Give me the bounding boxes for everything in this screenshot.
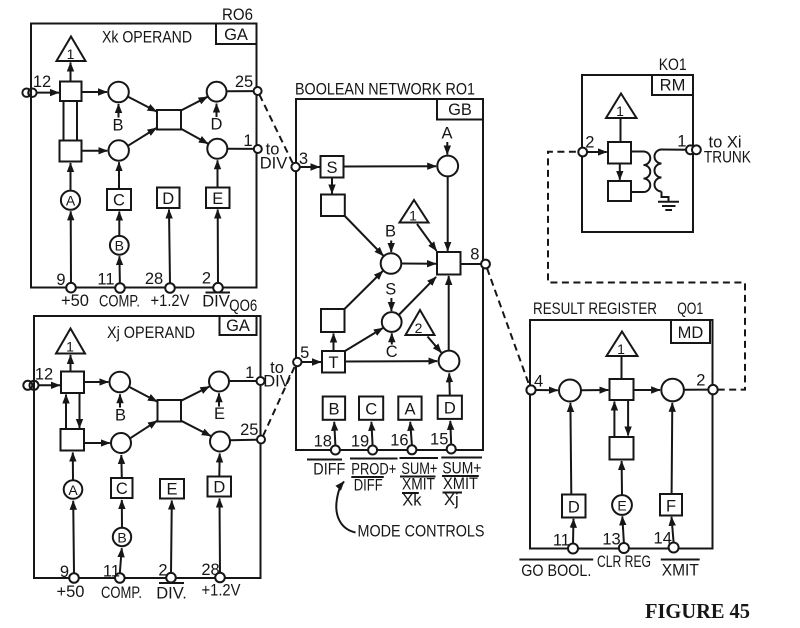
wire square 8 to node 8 <box>461 263 482 265</box>
wire center square to circle E (Xj) <box>181 387 209 401</box>
wire node 11 to circle B (Xk) <box>118 256 121 283</box>
amplifier triangle 1 (KO1) <box>606 94 637 119</box>
pin node 18 <box>331 446 340 455</box>
dashed wire result register node2 to KO1 node2 <box>548 152 745 390</box>
control square D (RR) <box>562 495 586 518</box>
node 3 input <box>291 163 299 171</box>
svg-text:D: D <box>213 479 225 497</box>
wire E to lower-right circle (Xk) <box>217 160 219 187</box>
svg-text:1: 1 <box>617 341 625 357</box>
svg-text:MD: MD <box>678 324 704 342</box>
svg-text:B: B <box>112 117 123 135</box>
svg-text:2: 2 <box>585 134 594 152</box>
center mixing square (Xk) <box>157 110 181 130</box>
wire lower-right circle to square 8 <box>448 276 450 351</box>
gate circle C (middle) <box>382 312 402 332</box>
amplifier triangle 1 (Xk) <box>57 37 86 62</box>
svg-text:3: 3 <box>299 150 308 168</box>
wire input to rank1 (Xj) <box>39 384 60 386</box>
wire circle D to node 25 (Xk) <box>227 90 254 92</box>
svg-text:2: 2 <box>202 270 211 288</box>
svg-text:25: 25 <box>240 421 258 439</box>
wire A to rank2 (Xj) <box>72 453 74 481</box>
wire square F to right circle (RR) <box>671 403 674 494</box>
wire circle C to square 8 <box>399 277 436 315</box>
svg-text:9: 9 <box>56 271 65 289</box>
svg-text:E: E <box>214 405 225 423</box>
wire S down to square <box>331 178 333 194</box>
node 4 input (RR) <box>526 385 535 394</box>
wire lower-right circle to node 1 (Xk) <box>227 148 254 150</box>
svg-text:1: 1 <box>677 133 686 151</box>
transformer left coil <box>644 152 651 193</box>
wire node 13 to circle E (RR) <box>622 516 624 543</box>
register square bottom (RR) <box>610 437 634 460</box>
wire T to lower-right circle <box>345 360 437 362</box>
wire node 15 to square D <box>449 421 452 445</box>
svg-text:GB: GB <box>448 101 472 119</box>
svg-text:KO1: KO1 <box>659 56 687 74</box>
gate circle bottom-left (Xk) <box>109 140 129 160</box>
wire A to rank2 (Xk) <box>70 163 72 191</box>
wire triangle 1 to square 8 <box>417 224 437 251</box>
control square D (boolean) <box>438 396 462 419</box>
svg-text:4: 4 <box>534 373 543 391</box>
gate circle top-left (Xj) <box>110 372 131 393</box>
wire D to lower-right circle (Xj) <box>218 454 220 477</box>
pin node 2 (Xk) <box>213 283 223 293</box>
wire lower-right circle to node 25 (Xj) <box>230 439 257 442</box>
svg-text:1: 1 <box>67 46 75 62</box>
wire triangle 2 to lower-right circle <box>428 337 442 353</box>
node 1 to DIV (Xj) <box>257 377 265 385</box>
wire square-above-T to circle B <box>345 271 383 309</box>
control square D (Xj) <box>208 477 232 497</box>
svg-text:C: C <box>365 401 377 419</box>
center mixing square (Xj) <box>158 400 182 422</box>
svg-text:COMP.: COMP. <box>99 293 140 311</box>
wire rank2 to lower-left circle (Xj) <box>84 442 110 444</box>
wire rank2 to lower-left circle (Xk) <box>82 150 108 152</box>
gate circle left (RR) <box>559 380 581 402</box>
svg-text:11: 11 <box>97 271 114 289</box>
svg-text:D: D <box>211 116 223 134</box>
svg-text:DIV: DIV <box>260 155 288 173</box>
gate circle bottom-right (Xk) <box>207 139 227 159</box>
wire square 1 to square 2 (KO1) <box>619 164 621 180</box>
gate circle top-right E (Xj) <box>209 372 229 392</box>
wire square to triangle (Xk) <box>70 63 72 82</box>
svg-text:RO6: RO6 <box>222 6 253 24</box>
svg-text:Xk OPERAND: Xk OPERAND <box>102 29 192 47</box>
svg-text:9: 9 <box>60 563 69 581</box>
gate circle top-left (Xk) <box>108 82 129 103</box>
ground symbol <box>658 201 679 203</box>
control square E (Xj) <box>160 479 184 499</box>
svg-text:GO BOOL.: GO BOOL. <box>521 562 591 580</box>
svg-text:B: B <box>328 401 339 419</box>
register square rank2 (Xk) <box>60 141 82 162</box>
svg-text:A: A <box>66 193 76 209</box>
trunk input double circle (Xk pin 12) <box>22 89 30 97</box>
svg-text:FIGURE 45: FIGURE 45 <box>645 599 750 623</box>
svg-text:A: A <box>68 482 78 498</box>
wire square1 to left coil <box>631 151 644 153</box>
node 1 to DIV (Xk) <box>254 145 262 153</box>
coupling wire left (Xj) <box>65 395 67 430</box>
wire right coil to output node 1 <box>662 149 687 151</box>
svg-text:QO1: QO1 <box>677 300 703 318</box>
svg-text:S: S <box>326 159 337 177</box>
wire circle B to square C (Xj) <box>121 500 123 528</box>
svg-text:1: 1 <box>616 103 624 119</box>
wire lower-left circle to center square (Xj) <box>130 421 157 438</box>
svg-text:D: D <box>162 190 174 208</box>
svg-text:28: 28 <box>145 270 163 288</box>
coupling wire left (RR) <box>613 402 615 437</box>
svg-text:RM: RM <box>660 77 686 95</box>
svg-text:COMP.: COMP. <box>101 584 142 602</box>
svg-text:MODE CONTROLS: MODE CONTROLS <box>358 523 485 541</box>
wire node 2 to square E (Xk) <box>217 210 219 284</box>
wire right coil to ground <box>662 192 669 202</box>
control square C (Xj) <box>111 478 133 498</box>
inverter triangle 1 (boolean) <box>400 200 429 223</box>
gate square T <box>322 351 345 373</box>
svg-text:11: 11 <box>553 532 570 550</box>
svg-text:XMIT: XMIT <box>662 562 699 580</box>
coupling wire left (Xk) <box>63 101 65 141</box>
pin node 16 <box>407 445 416 454</box>
svg-text:DIV.: DIV. <box>156 585 187 603</box>
svg-text:14: 14 <box>654 530 672 548</box>
svg-text:CLR REG: CLR REG <box>597 553 651 571</box>
control square F (RR) <box>660 494 682 516</box>
wire square D to left circle (RR) <box>569 403 572 495</box>
inverter triangle 2 (boolean) <box>406 310 435 335</box>
wire circle B to square C (Xk) <box>118 212 120 236</box>
wire square2 to left coil <box>631 191 644 193</box>
svg-text:15: 15 <box>430 431 448 449</box>
pin node 28 (Xk) <box>165 283 175 293</box>
pin node 11 (RR) <box>568 544 578 554</box>
svg-text:Xk: Xk <box>402 492 422 510</box>
Xk operand outer box <box>31 24 257 288</box>
svg-text:BOOLEAN NETWORK RO1: BOOLEAN NETWORK RO1 <box>295 81 475 99</box>
control square C (boolean) <box>359 397 383 420</box>
coupling wire right (RR) <box>627 400 629 435</box>
wire triangle to square (RR) <box>621 356 623 379</box>
control circle A (Xk) <box>61 191 80 210</box>
wire node 14 to square F (RR) <box>672 517 674 543</box>
wire node 3 to S <box>300 166 320 168</box>
svg-text:C: C <box>116 480 128 498</box>
register square rank2 (Xj) <box>61 429 85 451</box>
wire node 11 to circle B (Xj) <box>120 548 122 573</box>
wire node 28 to square D (Xk) <box>169 210 170 284</box>
gate circle A (top) <box>437 156 458 177</box>
wire node 2 to square E (Xj) <box>170 501 173 574</box>
svg-text:GA: GA <box>226 317 250 335</box>
transformer right coil <box>655 150 662 192</box>
svg-text:DIFF: DIFF <box>313 461 345 479</box>
svg-text:E: E <box>617 497 626 513</box>
square below S <box>321 195 345 217</box>
svg-text:2: 2 <box>415 320 423 336</box>
svg-text:19: 19 <box>351 433 369 451</box>
square above T <box>321 309 345 332</box>
svg-text:B: B <box>115 407 126 425</box>
svg-text:TRUNK: TRUNK <box>704 149 751 167</box>
driver square 2 (KO1) <box>608 181 631 201</box>
svg-text:B: B <box>385 223 396 241</box>
svg-text:28: 28 <box>201 561 219 579</box>
curved arrow to mode labels <box>336 482 355 533</box>
wire center square to circle D (Xk) <box>181 97 208 111</box>
svg-text:B: B <box>115 238 124 254</box>
wire node 16 to square A <box>410 422 412 446</box>
driver square 1 (KO1) <box>608 142 631 164</box>
gate circle B (middle) <box>381 253 402 274</box>
wire T up to square above <box>333 334 335 352</box>
wire node 5 to T <box>302 361 321 363</box>
output square 8 <box>437 252 461 275</box>
svg-text:S: S <box>385 281 396 299</box>
wire circle E to node 1 (Xj) <box>229 380 256 382</box>
svg-text:DIFF: DIFF <box>354 477 383 495</box>
wire circle B to center square (Xj) <box>129 387 157 402</box>
svg-text:18: 18 <box>314 433 332 451</box>
wire square D to lower-right circle <box>448 373 451 395</box>
tag box MD <box>671 320 710 343</box>
svg-text:F: F <box>666 498 676 516</box>
node 8 output <box>481 260 490 269</box>
svg-text:1: 1 <box>66 339 74 355</box>
wire node 18 to square B <box>334 422 335 446</box>
tag box GA (Xk) <box>216 24 257 45</box>
svg-text:+50: +50 <box>57 583 85 601</box>
wire right circle to node 2 (RR) <box>684 389 708 391</box>
dashed wire Xj node25 to boolean node5 <box>263 365 295 436</box>
control square A (boolean) <box>398 397 421 420</box>
coupling wire right (Xj) <box>79 393 81 428</box>
svg-text:C: C <box>113 192 125 210</box>
dashed wire Xk node25 to boolean node3 <box>259 95 293 164</box>
register square top (RR) <box>610 379 634 400</box>
svg-text:+50: +50 <box>61 292 89 310</box>
tag box RM <box>652 75 693 95</box>
svg-text:Xj: Xj <box>444 491 459 509</box>
pin node 13 (RR) <box>619 543 629 553</box>
svg-text:5: 5 <box>300 344 309 362</box>
control circle B (Xk) <box>110 236 129 255</box>
wire circle E to bottom square (RR) <box>621 461 623 495</box>
svg-text:C: C <box>386 343 398 361</box>
pin node 9 (Xj) <box>69 573 79 583</box>
wire node 28 to square D (Xj) <box>219 499 222 573</box>
svg-text:1: 1 <box>245 364 254 382</box>
node 5 input <box>293 358 301 366</box>
svg-text:E: E <box>166 481 177 499</box>
wire input to register square (Xk) <box>37 92 59 94</box>
wire left circle to center square (RR) <box>581 389 608 391</box>
amplifier triangle 1 (RR) <box>607 332 638 357</box>
svg-text:12: 12 <box>35 366 53 384</box>
svg-text:B: B <box>117 529 126 545</box>
svg-text:+1.2V: +1.2V <box>151 292 190 310</box>
wire C to lower-left circle (Xj) <box>120 455 123 478</box>
control square D (Xk) <box>157 188 180 209</box>
wire node 19 to square C <box>371 422 372 446</box>
node 2 output (RR) <box>708 385 717 394</box>
Xj operand outer box <box>34 316 261 578</box>
pin node 14 (RR) <box>669 543 679 553</box>
pin node 28 (Xj) <box>215 573 225 583</box>
wire node 4 to left circle (RR) <box>536 389 558 391</box>
output double circle node 1 (KO1) <box>686 145 695 154</box>
wire S to circle A <box>344 165 437 167</box>
svg-text:13: 13 <box>602 531 620 549</box>
node 25 (Xk) <box>254 87 262 95</box>
pin node 11 (Xk) <box>115 283 125 293</box>
svg-text:E: E <box>212 190 223 208</box>
svg-text:2: 2 <box>696 372 705 390</box>
svg-text:2: 2 <box>158 562 167 580</box>
node 2 input (KO1) <box>578 148 587 157</box>
wire circle A to square 8 <box>447 176 449 251</box>
svg-text:RESULT REGISTER: RESULT REGISTER <box>533 300 657 318</box>
gate circle bottom-left (Xj) <box>111 433 131 453</box>
wire center square to lower-right circle (Xk) <box>181 129 208 144</box>
svg-text:GA: GA <box>224 26 248 44</box>
pin node 15 <box>447 445 456 454</box>
tag box GA (Xj) <box>220 316 257 335</box>
pin node 2 (Xj) <box>166 573 176 583</box>
coupling wire right (Xk) <box>76 101 78 141</box>
result register outer box <box>530 320 713 549</box>
svg-text:A: A <box>441 125 452 143</box>
svg-text:T: T <box>328 354 338 372</box>
gate square S <box>321 156 344 178</box>
control square B (boolean) <box>323 397 345 420</box>
svg-text:25: 25 <box>235 73 253 91</box>
node 25 (Xj) <box>257 436 265 444</box>
wire C to lower-left circle (Xk) <box>118 162 120 189</box>
control circle A (Xj) <box>64 480 83 499</box>
dashed wire boolean node8 to result register node4 <box>487 268 530 386</box>
gate circle lower-right (boolean) <box>439 351 460 372</box>
wire square-below-S to circle B <box>345 216 384 256</box>
trunk input double circle (Xj pin 12) <box>23 381 32 390</box>
wire node 2 to square 1 (KO1) <box>587 151 607 153</box>
control circle E (RR) <box>612 495 632 515</box>
svg-text:D: D <box>444 400 456 418</box>
KO1 outer box <box>582 75 693 232</box>
wire lower-left circle to center square (Xk) <box>128 128 156 146</box>
wire square to triangle (Xj) <box>70 355 72 372</box>
gate circle right (RR) <box>661 379 684 402</box>
wire rank1 to circle B (Xk) <box>82 91 108 93</box>
svg-text:1: 1 <box>243 132 252 150</box>
wire rank1 to circle B (Xj) <box>84 381 108 383</box>
pin node 19 <box>368 446 377 455</box>
amplifier triangle 1 (Xj) <box>56 329 85 354</box>
wire circle B to center square (Xk) <box>128 97 157 112</box>
wire center square to right circle (RR) <box>634 389 661 391</box>
svg-text:1: 1 <box>409 208 417 224</box>
svg-text:DIV.: DIV. <box>202 293 233 311</box>
svg-text:8: 8 <box>470 246 479 264</box>
register square rank1 (Xk) <box>60 82 82 102</box>
gate circle bottom-right (Xj) <box>210 432 230 452</box>
pin node 9 (Xk) <box>66 283 76 293</box>
control circle B (Xj) <box>113 528 131 546</box>
wire circle B to square 8 <box>401 263 436 265</box>
pin node 11 (Xj) <box>115 573 125 583</box>
boolean network outer box <box>296 99 483 450</box>
tag box GB <box>437 99 483 120</box>
svg-text:D: D <box>568 499 580 517</box>
wire T to circle C <box>345 328 383 351</box>
svg-text:12: 12 <box>33 73 51 91</box>
svg-text:11: 11 <box>103 563 120 581</box>
control square C (Xk) <box>107 189 131 210</box>
wire node 9 to circle A (Xk) <box>70 211 72 283</box>
wire triangle to square (KO1) <box>620 118 622 142</box>
register square rank1 (Xj) <box>61 372 84 394</box>
svg-text:QO6: QO6 <box>229 297 257 315</box>
svg-text:16: 16 <box>390 432 408 450</box>
svg-text:Xj OPERAND: Xj OPERAND <box>107 324 195 342</box>
svg-text:+1.2V: +1.2V <box>202 582 241 600</box>
gate circle top-right D (Xk) <box>207 82 227 102</box>
wire center square to lower-right circle (Xj) <box>181 421 211 436</box>
svg-text:A: A <box>404 401 415 419</box>
wire node 11 to square D (RR) <box>572 519 575 544</box>
control square E (Xk) <box>206 188 230 209</box>
svg-text:DIV: DIV <box>263 373 291 391</box>
wire node 9 to circle A (Xj) <box>72 501 75 573</box>
